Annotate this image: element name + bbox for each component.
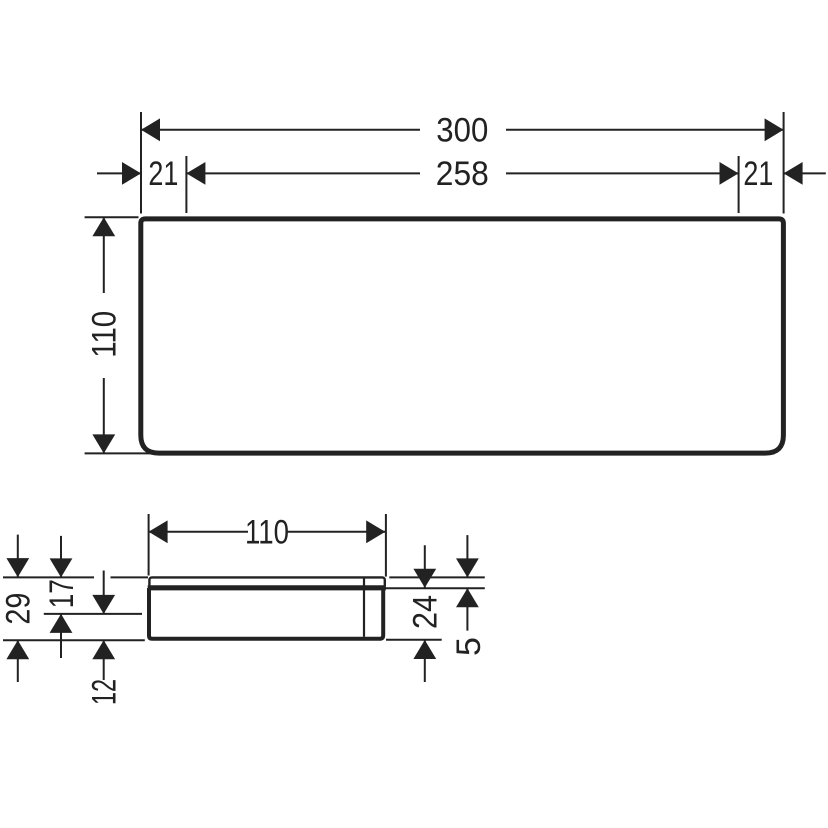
arrow 5 top — [456, 558, 479, 577]
arrow 24 bottom — [413, 640, 436, 659]
extension line plate-top right (y=577.4) — [389, 576, 485, 578]
extension line body-top right (y=588.3) — [384, 587, 485, 589]
dim line 300 — [141, 129, 784, 131]
dim 12 vertical (x=103.7) — [103, 571, 105, 681]
arrow 24 top — [413, 569, 436, 588]
body top thick line — [148, 585, 386, 590]
internal line side view — [363, 579, 365, 637]
arrow 110side right — [366, 520, 385, 543]
arrow 29 bottom — [6, 640, 29, 659]
arrow 110 top — [92, 217, 115, 236]
svg-text:5: 5 — [450, 637, 488, 656]
arrow 300 right — [765, 118, 784, 141]
svg-text:24: 24 — [407, 595, 445, 629]
svg-text:110: 110 — [245, 514, 289, 552]
svg-text:21: 21 — [148, 155, 178, 193]
arrow 12 bottom — [92, 640, 115, 659]
svg-text:300: 300 — [436, 112, 488, 150]
arrow 300 left — [141, 118, 160, 141]
arrow 21-left outside — [122, 162, 141, 185]
arrow 258 left — [186, 162, 205, 185]
dim 5 vertical (x=467.4) — [466, 535, 468, 631]
extension line 110 bottom — [85, 452, 150, 454]
body outline side view — [149, 588, 383, 639]
extension line right (x=783.6) — [783, 112, 785, 214]
extension line 110 top — [85, 216, 139, 218]
arrow 21-right outside — [784, 162, 803, 185]
extension line 258-right (x=738.6) — [738, 156, 740, 213]
arrow 110side left — [149, 520, 168, 543]
dim line 110 vertical — [103, 217, 105, 453]
arrow 17 bottom — [50, 614, 73, 633]
svg-text:258: 258 — [436, 155, 489, 193]
dim line 258 — [186, 172, 738, 174]
dim 17 vertical (x=61) — [60, 536, 62, 658]
extension line 258-left (x=186.4) — [185, 156, 187, 213]
dim 29 vertical (x=17.8) — [17, 535, 19, 682]
svg-text:110: 110 — [86, 311, 124, 358]
arrow 110 bottom — [92, 434, 115, 453]
side view extension line left top (x=148.6) — [3, 514, 485, 682]
shelf plate side view — [149, 577, 384, 588]
extension line plate-top left (y=577.4) — [3, 576, 148, 578]
side view extension line right top (x=385.9) — [385, 514, 387, 577]
extension line bottom right (y=639.8) — [386, 639, 442, 641]
arrow 12 top — [92, 595, 115, 614]
dim line 21 left tail — [97, 172, 141, 174]
arrow 17 top — [50, 558, 73, 577]
arrow 258 right — [720, 162, 739, 185]
dim line 21 right tail — [784, 172, 826, 174]
svg-text:12: 12 — [86, 679, 124, 705]
svg-text:17: 17 — [43, 579, 81, 608]
shelf front view outline — [141, 219, 784, 453]
dim line 110 side view — [149, 531, 386, 533]
dim 24 vertical (x=424.8) — [424, 545, 426, 682]
arrow 29 top — [6, 558, 29, 577]
extension line bottom left (y=640.2) — [3, 639, 145, 641]
svg-text:21: 21 — [743, 155, 773, 193]
extension line left (x=141) — [140, 112, 142, 214]
extension line mid 17/12 (y=613.9) — [44, 613, 142, 615]
svg-text:29: 29 — [0, 593, 38, 625]
arrow 5 bottom — [456, 588, 479, 607]
